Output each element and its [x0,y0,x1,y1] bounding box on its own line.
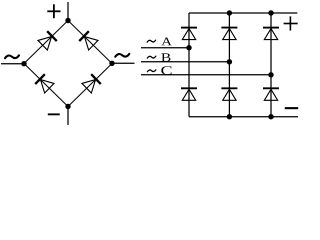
wire edge bottom-right [68,64,112,107]
AC tilde right [115,54,129,57]
diode D7 upper leg3 [263,28,279,40]
wire phase A line [141,47,189,49]
node right [109,61,114,66]
wire edge left-bottom [24,64,68,107]
node phase A tap [186,45,191,50]
wire right stub [112,62,135,64]
node phase C tap [268,72,273,77]
phase C small tilde [147,70,155,72]
diode D8 lower leg1 [181,88,197,100]
diode D3 (- to left) [35,74,54,93]
diode D4 (- to right) [82,74,101,93]
label C [161,66,171,75]
wire phase B line [141,61,229,63]
node top bus leg2 [227,10,232,15]
label A [161,38,172,46]
wire leg 2 [228,13,230,117]
node bottom bus leg2 [227,114,232,119]
wire edge left-top [24,21,68,64]
wire top stub [67,2,69,21]
plus label (+ output) [47,4,60,18]
diode D6 upper leg2 [221,28,237,40]
wire edge top-right [68,21,112,64]
phase A small tilde [147,40,155,42]
node top [65,18,70,23]
node phase B tap [227,59,232,64]
diode D9 lower leg2 [221,88,237,100]
wire leg 3 [270,13,272,117]
diode D10 lower leg3 [263,88,279,100]
node left [21,61,26,66]
node top bus leg3 [268,10,273,15]
wire leg 1 [188,13,190,117]
phase B small tilde [147,56,155,58]
diode D1 (left to + ) [38,31,57,50]
node bottom [65,104,70,109]
diode D2 (right to + ) [79,31,98,50]
diode D5 upper leg1 [181,28,197,40]
wire bottom bus [189,116,298,118]
minus label (- bus) [285,107,298,109]
wire bottom stub [67,107,69,126]
wire top bus [189,12,297,14]
wire phase C line [141,74,271,76]
AC tilde left [5,55,19,58]
plus label (+ bus) [284,16,298,30]
label B [161,53,170,61]
wire left stub [1,63,24,65]
minus label (- output) [48,113,60,115]
node bottom bus leg3 [268,114,273,119]
